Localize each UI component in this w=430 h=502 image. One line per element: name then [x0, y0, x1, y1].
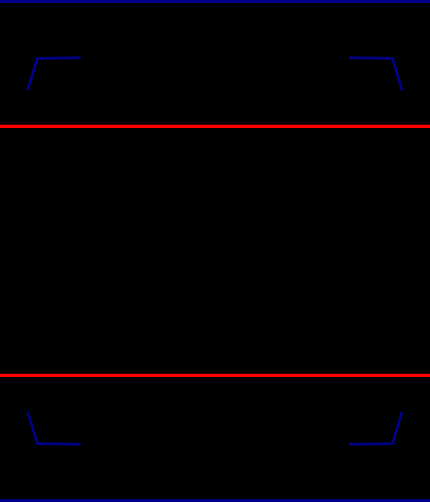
- wire bottom boundary (blue): [0, 499, 430, 502]
- node upper-left Brewster window bracket: [28, 58, 81, 90]
- node upper-right Brewster window bracket: [349, 58, 402, 90]
- node lower-left Brewster window bracket: [28, 412, 81, 445]
- wire mirror M1 (red): [0, 125, 430, 128]
- node lower-right Brewster window bracket: [349, 412, 402, 445]
- wire top boundary (blue): [0, 0, 430, 3]
- wire mirror M2 (red): [0, 374, 430, 377]
